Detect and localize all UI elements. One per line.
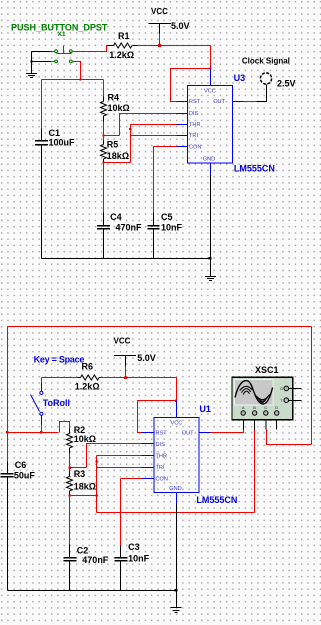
chip U1 pin stubs xyxy=(142,401,211,505)
svg-text:100uF: 100uF xyxy=(49,137,76,147)
waveform xyxy=(235,381,273,404)
svg-text:OUT: OUT xyxy=(182,431,194,437)
wire ground rail bottom circuit xyxy=(8,590,177,592)
wire OUT to probe xyxy=(244,101,257,103)
svg-text:G: G xyxy=(280,386,283,391)
wire OUT U1 to scope A xyxy=(211,430,244,433)
svg-text:R1: R1 xyxy=(118,31,130,41)
svg-text:1.2kΩ: 1.2kΩ xyxy=(109,50,134,60)
wire THR U1 xyxy=(97,455,142,457)
junction THR riser U1 xyxy=(96,460,98,462)
svg-text:RST: RST xyxy=(189,99,201,105)
svg-text:ToRoll: ToRoll xyxy=(43,398,70,408)
wire scope C drop xyxy=(266,430,268,445)
svg-text:C4: C4 xyxy=(110,212,122,222)
terminal T xyxy=(284,398,289,403)
svg-text:OUT: OUT xyxy=(213,99,225,105)
svg-text:CON: CON xyxy=(189,145,201,151)
svg-text:TRI: TRI xyxy=(156,465,165,471)
wire THR TRI riser U1 xyxy=(96,456,98,513)
svg-text:Key = Space: Key = Space xyxy=(34,354,85,364)
junction left border xyxy=(6,431,8,433)
resistor R4 xyxy=(103,80,105,97)
svg-text:DIS: DIS xyxy=(189,111,199,117)
svg-text:U1: U1 xyxy=(199,404,211,414)
capacitor C4 xyxy=(103,163,105,213)
svg-text:C5: C5 xyxy=(161,212,173,222)
junction node C xyxy=(102,161,104,163)
chip U3 pin labels xyxy=(189,88,226,162)
svg-text:GND: GND xyxy=(169,486,181,492)
svg-text:RST: RST xyxy=(156,431,168,437)
wire button to R1 xyxy=(82,46,107,52)
chip U3 pin stubs xyxy=(177,69,244,175)
svg-text:R6: R6 xyxy=(82,362,94,372)
chip U1 body xyxy=(154,418,199,493)
svg-text:5.0V: 5.0V xyxy=(171,21,190,31)
op chip U3 body xyxy=(188,86,233,164)
capacitor C6 xyxy=(1,462,14,591)
wire scope B row xyxy=(97,512,255,514)
wire node B2 row xyxy=(70,467,87,469)
svg-text:1.2kΩ: 1.2kΩ xyxy=(75,382,100,392)
wire switch row xyxy=(8,432,59,434)
wire CON xyxy=(154,146,177,148)
svg-text:GND: GND xyxy=(203,157,215,163)
power VCC2 xyxy=(114,356,136,367)
svg-text:470nF: 470nF xyxy=(116,223,143,233)
svg-text:5.0V: 5.0V xyxy=(137,353,156,363)
junction switch row xyxy=(40,431,42,433)
svg-text:470nF: 470nF xyxy=(82,555,109,565)
chip U1 pin labels xyxy=(156,420,195,492)
terminal G xyxy=(284,386,289,391)
junction VCC2 xyxy=(124,376,127,379)
wire THR TRI riser xyxy=(130,125,132,163)
svg-text:U3: U3 xyxy=(234,73,246,83)
svg-text:2.5V: 2.5V xyxy=(277,78,296,88)
junction node A xyxy=(79,78,81,80)
svg-text:18kΩ: 18kΩ xyxy=(74,482,96,492)
wire node C row xyxy=(104,162,131,164)
wire R2 jog xyxy=(60,422,70,433)
junction riser node C2 xyxy=(96,494,98,496)
resistor R2 xyxy=(67,429,73,454)
svg-text:C6: C6 xyxy=(15,460,27,470)
svg-text:X1: X1 xyxy=(58,31,66,38)
svg-text:VCC: VCC xyxy=(114,337,131,346)
resistor R5 xyxy=(103,136,105,141)
svg-text:10kΩ: 10kΩ xyxy=(74,434,96,444)
wire scope C stub xyxy=(265,415,267,430)
wire scope A stub xyxy=(243,415,245,430)
resistor R6 xyxy=(78,375,101,380)
wire left border xyxy=(7,327,9,462)
svg-text:10kΩ: 10kΩ xyxy=(108,103,130,113)
ground GND1 xyxy=(26,52,37,78)
svg-text:50uF: 50uF xyxy=(14,470,36,480)
wire button to node A xyxy=(77,62,81,80)
svg-text:TRI: TRI xyxy=(189,133,198,139)
svg-text:LM555CN: LM555CN xyxy=(234,163,275,173)
junction node B2 xyxy=(68,466,70,468)
wire R6 to corner xyxy=(101,377,177,379)
svg-text:10nF: 10nF xyxy=(128,553,150,563)
resistor R3 xyxy=(69,468,71,472)
wire DIS xyxy=(120,114,177,136)
wire GND drop xyxy=(210,175,212,277)
wire GND drop U1 xyxy=(176,505,178,608)
wire TRI xyxy=(131,135,177,137)
junction VCC1 xyxy=(158,44,161,47)
power VCC1 xyxy=(148,24,171,34)
wire scope D stub xyxy=(276,415,278,430)
svg-text:18kΩ: 18kΩ xyxy=(107,151,129,161)
svg-text:R4: R4 xyxy=(108,93,120,103)
wire scope B stub xyxy=(254,415,256,430)
wire DIS U1 xyxy=(87,444,142,468)
wire ground rail top circuit xyxy=(42,258,211,260)
svg-text:D: D xyxy=(275,405,278,410)
svg-text:DIS: DIS xyxy=(156,442,166,448)
wire R6 row xyxy=(42,377,78,379)
svg-text:A: A xyxy=(242,405,245,410)
svg-text:R5: R5 xyxy=(107,140,119,150)
svg-text:C3: C3 xyxy=(128,542,140,552)
wire right border xyxy=(311,327,313,445)
svg-text:THR: THR xyxy=(189,122,201,128)
junction node C2 xyxy=(69,494,71,496)
oscilloscope XSC1 xyxy=(232,377,302,420)
ground GND2 xyxy=(205,277,216,281)
wire RST branch U1 xyxy=(138,401,177,433)
ground GND3 xyxy=(171,608,182,613)
svg-text:Clock Signal: Clock Signal xyxy=(242,57,290,66)
wire node B row xyxy=(104,135,120,137)
svg-text:R3: R3 xyxy=(74,469,86,479)
wire top border xyxy=(8,326,312,328)
svg-text:THR: THR xyxy=(156,454,168,460)
junction THR riser xyxy=(129,128,131,130)
junction VCC branch xyxy=(209,67,211,69)
wire RST branch xyxy=(171,69,211,102)
svg-text:XSC1: XSC1 xyxy=(255,365,279,375)
wire button left top xyxy=(32,51,51,53)
wire VCC corner down xyxy=(210,46,212,69)
wire THR xyxy=(131,124,177,126)
wire CON U1 xyxy=(121,478,142,480)
capacitor C2 xyxy=(69,496,71,545)
wire TRI U1 xyxy=(97,467,142,469)
probe Clock Signal xyxy=(260,73,271,84)
svg-text:VCC: VCC xyxy=(171,420,183,426)
svg-text:VCC: VCC xyxy=(204,88,216,94)
capacitor C1 xyxy=(41,80,43,129)
wire bottom jog to C xyxy=(267,430,312,445)
node A row wire xyxy=(42,79,104,81)
svg-text:LM555CN: LM555CN xyxy=(196,495,237,505)
capacitor C5 xyxy=(153,147,155,213)
junction node B xyxy=(102,134,104,136)
push button X1 xyxy=(51,46,82,63)
junction VCC2 branch xyxy=(175,400,177,402)
wire scope B drop xyxy=(254,430,256,513)
wire R1 to corner xyxy=(138,45,211,47)
switch ToRoll xyxy=(41,378,43,383)
wire button left bottom xyxy=(32,61,51,63)
wire VCC2 corner down xyxy=(176,378,178,401)
capacitor C3 xyxy=(120,479,122,546)
svg-text:C: C xyxy=(264,405,267,410)
junction ground tee xyxy=(30,60,32,62)
svg-text:CON: CON xyxy=(156,477,168,483)
svg-text:10nF: 10nF xyxy=(161,223,183,233)
svg-text:B: B xyxy=(253,405,256,410)
svg-text:VCC: VCC xyxy=(151,7,168,16)
junction rail xyxy=(209,257,212,260)
wire node C2 row xyxy=(70,495,97,497)
terminals A B C D xyxy=(241,411,245,415)
junction rail U1 xyxy=(175,589,178,592)
resistor R1 xyxy=(107,43,138,48)
